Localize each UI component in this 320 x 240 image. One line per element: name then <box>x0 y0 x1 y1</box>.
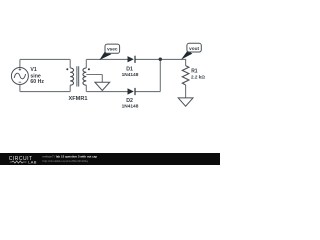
transformer XFMR1 <box>70 66 86 86</box>
wire D2 cathode to riser <box>135 91 160 93</box>
svg-text:LAB: LAB <box>28 160 37 165</box>
node flag vout box <box>187 43 201 52</box>
svg-text:60 Hz: 60 Hz <box>30 79 44 85</box>
wire V1 top lead <box>19 59 21 67</box>
wire D1 cathode to vout node <box>135 58 186 60</box>
phase dot left <box>66 68 68 70</box>
core lines <box>77 66 79 86</box>
node flag vsec tail <box>99 50 111 60</box>
svg-text:XFMR1: XFMR1 <box>69 96 88 102</box>
wire secondary bottom to D2 <box>86 91 127 93</box>
node junction dot D1/D2 output <box>159 58 162 61</box>
left winding (bumps toward core) <box>70 68 73 85</box>
svg-text:2.2 kΩ: 2.2 kΩ <box>191 74 205 79</box>
wire riser D2 to D1 node <box>159 59 161 91</box>
wire center tap horizontal <box>86 74 102 76</box>
right winding (bumps toward core) <box>83 68 86 85</box>
wire left winding top lead <box>69 59 71 68</box>
phase dot right <box>88 68 90 70</box>
svg-text:1N4148: 1N4148 <box>122 72 139 78</box>
svg-text:vout: vout <box>189 46 199 51</box>
node flag vout tail <box>181 50 192 59</box>
svg-text:http://circuitlab.com/cmx5bmhf: http://circuitlab.com/cmx5bmhfmbfkq <box>43 159 89 163</box>
node flag vsec box <box>105 44 120 53</box>
svg-text:V1: V1 <box>30 67 36 73</box>
svg-text:rnelson7 / lab 12 question 3 w: rnelson7 / lab 12 question 3 with out ca… <box>43 155 98 159</box>
wire R1 top lead <box>185 59 187 65</box>
ground (center tap) <box>95 82 110 90</box>
diode D2 <box>128 88 136 95</box>
svg-text:D2: D2 <box>126 98 133 104</box>
svg-text:D1: D1 <box>126 66 133 72</box>
wire left winding bottom lead <box>69 85 71 91</box>
CircuitLab logo zigzag <box>10 161 27 163</box>
wire secondary bottom lead <box>85 85 87 91</box>
svg-text:R1: R1 <box>191 68 198 74</box>
wire secondary top lead <box>85 59 87 68</box>
watermark bar <box>0 153 220 165</box>
svg-text:1N4148: 1N4148 <box>122 103 139 109</box>
wire primary bottom <box>20 91 70 93</box>
wire center tap down to ground <box>101 75 103 83</box>
wire primary top <box>20 58 70 60</box>
diode D1 <box>128 56 136 63</box>
ground (under R1) <box>178 98 193 106</box>
wire V1 bottom lead <box>19 84 21 92</box>
wire secondary top to D1 <box>86 58 127 60</box>
resistor R1 <box>182 66 189 85</box>
wire R1 bottom lead <box>185 85 187 98</box>
svg-text:vsec: vsec <box>107 47 118 52</box>
voltage source V1 <box>11 68 28 85</box>
